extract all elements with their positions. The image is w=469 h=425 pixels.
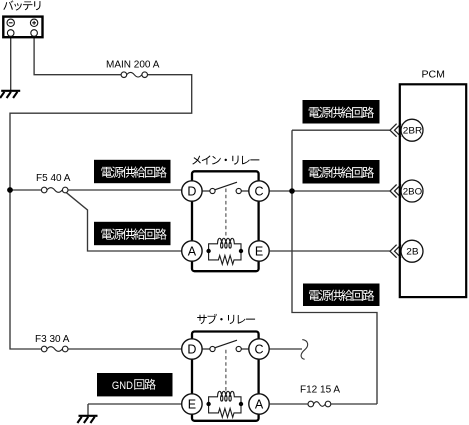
svg-text:F12 15 A: F12 15 A [300, 385, 340, 396]
svg-text:A: A [188, 245, 197, 259]
svg-text:D: D [187, 185, 196, 199]
svg-text:E: E [255, 245, 263, 259]
svg-text:GND: GND [112, 380, 133, 392]
svg-text:2BO: 2BO [403, 186, 422, 196]
svg-text:A: A [255, 398, 264, 412]
svg-text:2B: 2B [406, 247, 418, 257]
svg-text:2BR: 2BR [403, 126, 423, 136]
svg-text:C: C [254, 185, 263, 199]
svg-text:PCM: PCM [422, 70, 446, 81]
svg-text:C: C [254, 343, 263, 357]
svg-text:D: D [187, 343, 196, 357]
svg-text:E: E [188, 398, 196, 412]
svg-text:F5 40 A: F5 40 A [36, 173, 71, 184]
svg-text:F3 30 A: F3 30 A [35, 334, 70, 345]
svg-text:MAIN 200 A: MAIN 200 A [106, 60, 160, 71]
